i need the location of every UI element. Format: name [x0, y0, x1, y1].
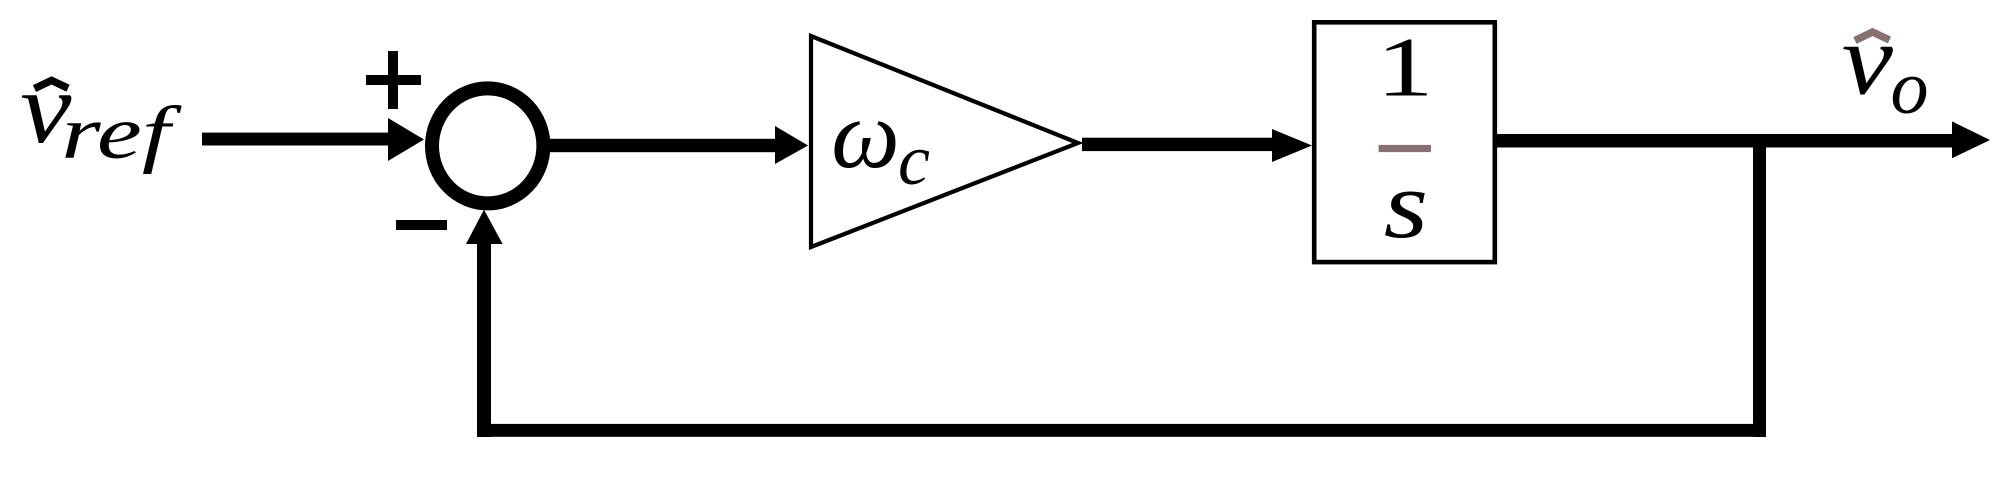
svg-text:ω: ω	[831, 81, 900, 188]
svg-text:1: 1	[1376, 20, 1433, 114]
svg-text:c: c	[898, 120, 930, 200]
svg-text:ref: ref	[61, 92, 182, 174]
svg-text:v: v	[1842, 2, 1894, 115]
svg-text:o: o	[1891, 46, 1929, 130]
svg-text:s: s	[1384, 151, 1428, 257]
